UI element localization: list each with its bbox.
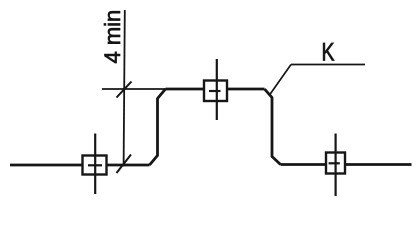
junction box J1 (left): white square: [83, 134, 107, 195]
junction box J1 cross: vertical line: [94, 134, 96, 195]
svg-text:K: K: [322, 38, 335, 66]
wire: right riser with chamfered corners: [265, 89, 281, 165]
wire: top horizontal pipe run: [166, 88, 265, 91]
junction box J3 cross: horizontal dash: [329, 162, 340, 164]
extension line at top pipe level: [102, 88, 166, 90]
junction box J2 cross: horizontal dash: [209, 90, 221, 92]
junction box J1 cross: horizontal dash: [88, 164, 102, 166]
leader line K: horizontal segment: [291, 64, 365, 66]
leader line K: diagonal segment: [270, 65, 292, 96]
junction box J2 (middle): white square: [204, 59, 227, 120]
wire: left riser with chamfered corners: [150, 89, 166, 165]
dimension tick: bottom oblique stroke: [117, 155, 132, 174]
svg-text:4 min: 4 min: [100, 10, 125, 64]
junction box J2 cross: vertical line: [216, 59, 218, 120]
junction box J3 (right): white square: [326, 134, 345, 197]
dimension line: vertical: [124, 10, 125, 167]
wire: bottom-right horizontal pipe run: [281, 163, 412, 166]
junction box J3 cross: vertical line: [335, 134, 337, 197]
wire: bottom-left horizontal pipe run: [10, 164, 150, 167]
dimension tick: top oblique stroke: [117, 82, 132, 98]
